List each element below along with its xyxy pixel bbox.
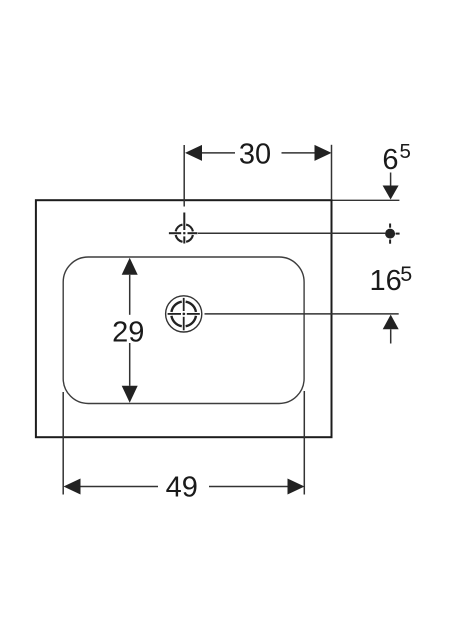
faucet hole crosshair horizontal bbox=[169, 232, 198, 234]
dimension 16-5 label bbox=[370, 262, 413, 297]
svg-text:6: 6 bbox=[382, 144, 398, 176]
dimension 49 right extension line bbox=[303, 391, 305, 495]
drain hole crosshair vertical bbox=[183, 298, 185, 330]
chain dimension dot bbox=[385, 224, 400, 244]
faucet hole circle bbox=[176, 225, 193, 242]
top edge extension line right bbox=[333, 199, 400, 201]
svg-text:5: 5 bbox=[400, 262, 412, 286]
dimension 49 label bbox=[166, 471, 198, 503]
dimension 30 line and arrows bbox=[185, 145, 332, 161]
dimension 30 label bbox=[239, 138, 271, 170]
dimension 16-5 arrow bbox=[383, 315, 399, 344]
drain hole crosshair horizontal bbox=[168, 313, 200, 315]
dimension 29 label bbox=[112, 316, 144, 348]
faucet hole crosshair vertical bbox=[183, 213, 185, 244]
dimension 6-5 arrow bbox=[383, 173, 399, 200]
dimension 29 line and arrows bbox=[122, 258, 138, 403]
svg-text:49: 49 bbox=[166, 471, 198, 503]
svg-text:16: 16 bbox=[370, 265, 402, 297]
svg-text:5: 5 bbox=[400, 140, 411, 163]
dimension 6-5 label bbox=[382, 140, 411, 176]
basin outline bbox=[63, 257, 304, 404]
svg-text:29: 29 bbox=[112, 316, 144, 348]
dimension 30 right extension line bbox=[331, 145, 333, 200]
drain axis line right bbox=[205, 313, 399, 315]
drain hole inner circle bbox=[171, 302, 196, 327]
svg-text:30: 30 bbox=[239, 138, 271, 170]
countertop outline bbox=[36, 200, 332, 437]
drain hole outer circle bbox=[166, 296, 202, 332]
dimension 49 line and arrows bbox=[64, 479, 305, 495]
faucet axis line to chain dot bbox=[198, 232, 385, 234]
dimension 30 left extension line bbox=[183, 145, 185, 207]
dimension 49 left extension line bbox=[62, 392, 64, 495]
